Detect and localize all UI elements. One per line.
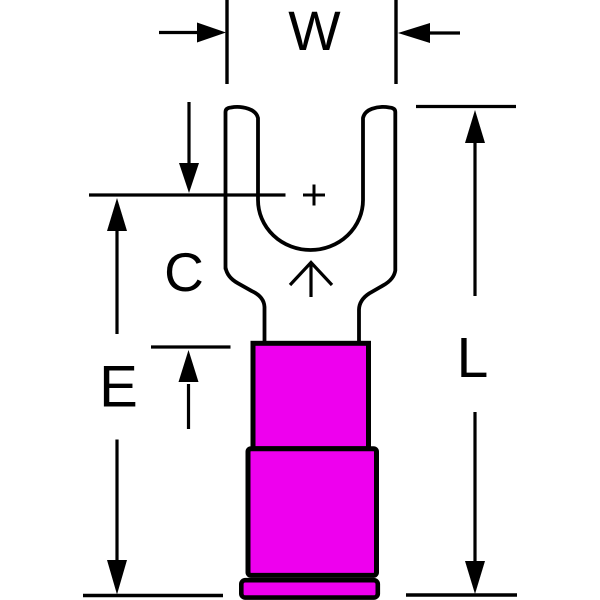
bottom extension line (406, 593, 517, 596)
svg-text:E: E (99, 355, 138, 420)
top extension line (416, 105, 516, 108)
bottom up arrow (187, 384, 190, 429)
svg-text:L: L (457, 326, 489, 390)
fork terminal metal body (226, 107, 396, 348)
bottom extension line (151, 345, 231, 348)
top down arrow (187, 102, 190, 168)
bottom flange (241, 580, 377, 597)
right extension line (394, 0, 397, 84)
bottom extension line (83, 594, 223, 597)
svg-text:W: W (288, 0, 341, 62)
upper insulation barrel (253, 343, 369, 448)
E dimension (107, 198, 127, 231)
svg-text:C: C (164, 241, 204, 303)
right arrow (428, 31, 460, 34)
left extension line (225, 0, 228, 84)
lower insulation barrel (248, 449, 377, 576)
left arrow (159, 31, 200, 34)
chevron up arrow (290, 263, 332, 286)
plus symbol (303, 194, 325, 197)
top extension line (89, 193, 286, 196)
